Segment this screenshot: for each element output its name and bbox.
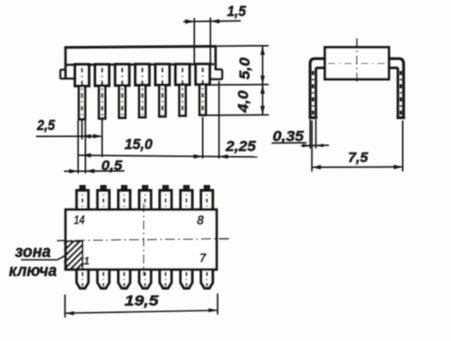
pin number 8 — [197, 213, 204, 227]
svg-text:2,5: 2,5 — [36, 118, 56, 134]
pin 1 (top view) — [77, 269, 89, 288]
svg-text:5,0: 5,0 — [236, 57, 253, 80]
svg-text:19,5: 19,5 — [125, 294, 160, 310]
pin 7 (top view) — [201, 269, 213, 288]
pin 11 (top view) — [139, 186, 151, 209]
pin 12 (top view) — [118, 186, 130, 209]
svg-text:0,35: 0,35 — [273, 129, 305, 145]
dimension 19,5 with arrows — [65, 294, 218, 318]
pin 6 (front view lead) — [176, 64, 190, 116]
key zone hatched area — [64, 241, 82, 269]
pin 10 (top view) — [160, 186, 172, 209]
vertical centre line (top view) — [143, 204, 145, 277]
svg-text:15,0: 15,0 — [125, 136, 154, 153]
pin 6 (top view) — [181, 269, 193, 288]
pin 7 (front view lead) — [196, 64, 210, 115]
leader line to key zone — [21, 255, 67, 260]
dimension 7,5 with arrows — [312, 121, 403, 172]
svg-text:ключа: ключа — [9, 261, 57, 280]
pin 5 (front view lead) — [155, 64, 169, 116]
svg-text:1: 1 — [83, 255, 89, 267]
pin 4 (front view lead) — [135, 64, 149, 117]
svg-text:1,5: 1,5 — [227, 4, 247, 20]
svg-text:8: 8 — [197, 213, 204, 227]
horizontal centre line (top view) — [57, 239, 230, 241]
label 'ключа' — [9, 261, 57, 280]
IC body (top view) — [66, 210, 217, 270]
pin 4 (top view) — [139, 269, 151, 288]
dimension 2,5 with arrows — [36, 118, 102, 157]
pin 2 (top view) — [98, 269, 110, 288]
svg-text:зона: зона — [15, 242, 51, 261]
svg-text:4,0: 4,0 — [235, 90, 252, 114]
pin 1 (front view lead) — [75, 64, 89, 119]
pin 14 (top view) — [77, 186, 89, 209]
pin 2 (front view lead) — [95, 64, 109, 118]
pin 9 (top view) — [181, 186, 193, 209]
label 'зона' — [15, 242, 51, 261]
svg-text:14: 14 — [74, 213, 85, 227]
svg-text:7: 7 — [200, 253, 207, 265]
dimensions 5,0 and 4,0 with arrows — [206, 45, 269, 115]
svg-text:2,25: 2,25 — [225, 138, 257, 155]
pin number 1 — [83, 255, 89, 267]
dimension 1,5 with arrows — [183, 4, 247, 64]
vertical centre line (side view) — [356, 39, 358, 82]
IC body bottom seam line (front view) — [66, 63, 214, 66]
pin 13 (top view) — [98, 186, 110, 209]
IC body (side view) — [325, 47, 389, 79]
horizontal centre line (side view) — [328, 62, 386, 64]
svg-text:0,5: 0,5 — [101, 157, 122, 173]
svg-text:7,5: 7,5 — [348, 150, 369, 165]
dimension 0,5 with arrows — [64, 121, 125, 174]
dimension 0,35 with arrows — [272, 120, 330, 149]
pin 3 (front view lead) — [115, 64, 129, 118]
pin number 7 — [200, 253, 207, 265]
IC body (front view) — [60, 46, 222, 79]
pin 3 (top view) — [118, 269, 130, 288]
dimensions 15,0 and 2,25 with arrows — [78, 81, 258, 159]
pin 8 (top view) — [201, 186, 213, 209]
pin 5 (top view) — [160, 269, 172, 288]
right lead (side view) — [389, 59, 405, 118]
pin number 14 — [74, 213, 85, 227]
left lead (side view) — [309, 59, 325, 118]
